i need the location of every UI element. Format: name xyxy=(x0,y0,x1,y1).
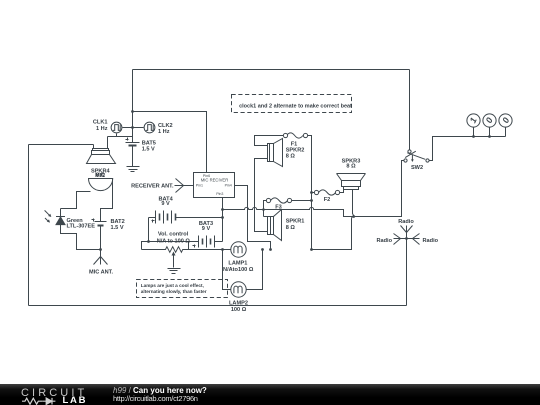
svg-text:MIC ANT.: MIC ANT. xyxy=(89,269,113,275)
svg-text:1 Hz: 1 Hz xyxy=(158,129,170,135)
svg-text:Radio: Radio xyxy=(423,238,439,244)
svg-text:SW2: SW2 xyxy=(411,165,423,171)
svg-text:N/Ato100 Ω: N/Ato100 Ω xyxy=(223,267,254,273)
svg-text:Pin3: Pin3 xyxy=(216,192,223,196)
svg-text:MIC: MIC xyxy=(95,173,105,179)
svg-text:100 Ω: 100 Ω xyxy=(231,307,247,313)
svg-text:1.5 V: 1.5 V xyxy=(142,147,155,153)
svg-text:F2: F2 xyxy=(324,197,331,203)
svg-text:Pin4: Pin4 xyxy=(225,184,232,188)
svg-text:Radio: Radio xyxy=(398,219,414,225)
svg-text:BAT2: BAT2 xyxy=(111,219,125,225)
svg-text:1.5 V: 1.5 V xyxy=(111,225,124,231)
svg-text:alternating slowly, than faste: alternating slowly, than faster xyxy=(141,289,207,294)
svg-text:CLK1: CLK1 xyxy=(93,120,108,126)
svg-text:F3: F3 xyxy=(275,204,282,210)
svg-text:Pin1: Pin1 xyxy=(196,184,203,188)
svg-text:LTL-307EE: LTL-307EE xyxy=(67,224,96,230)
svg-text:1 Hz: 1 Hz xyxy=(96,126,108,132)
svg-text:9 V: 9 V xyxy=(161,201,170,207)
svg-text:8 Ω: 8 Ω xyxy=(346,163,356,169)
svg-text:SPKR1: SPKR1 xyxy=(286,218,305,224)
svg-text:SPKR2: SPKR2 xyxy=(286,147,305,153)
svg-text:MIC RECIVER: MIC RECIVER xyxy=(201,178,228,183)
svg-text:Radio: Radio xyxy=(376,238,392,244)
svg-text:Vol. control: Vol. control xyxy=(158,232,189,238)
svg-text:8 Ω: 8 Ω xyxy=(286,225,296,231)
svg-text:8 Ω: 8 Ω xyxy=(286,154,296,160)
svg-text:LAMP1: LAMP1 xyxy=(228,261,247,267)
svg-text:Lamps are just a cool effect,: Lamps are just a cool effect, xyxy=(141,283,204,288)
svg-text:9 V: 9 V xyxy=(202,226,211,232)
svg-text:LAMP2: LAMP2 xyxy=(229,300,248,306)
svg-text:N/A to 100 Ω: N/A to 100 Ω xyxy=(157,239,191,245)
svg-text:RECEIVER ANT.: RECEIVER ANT. xyxy=(131,183,174,189)
svg-text:CLK2: CLK2 xyxy=(158,123,173,129)
svg-text:BAT5: BAT5 xyxy=(142,140,156,146)
svg-text:clock1 and 2 alternate to make: clock1 and 2 alternate to make correct b… xyxy=(239,103,352,109)
